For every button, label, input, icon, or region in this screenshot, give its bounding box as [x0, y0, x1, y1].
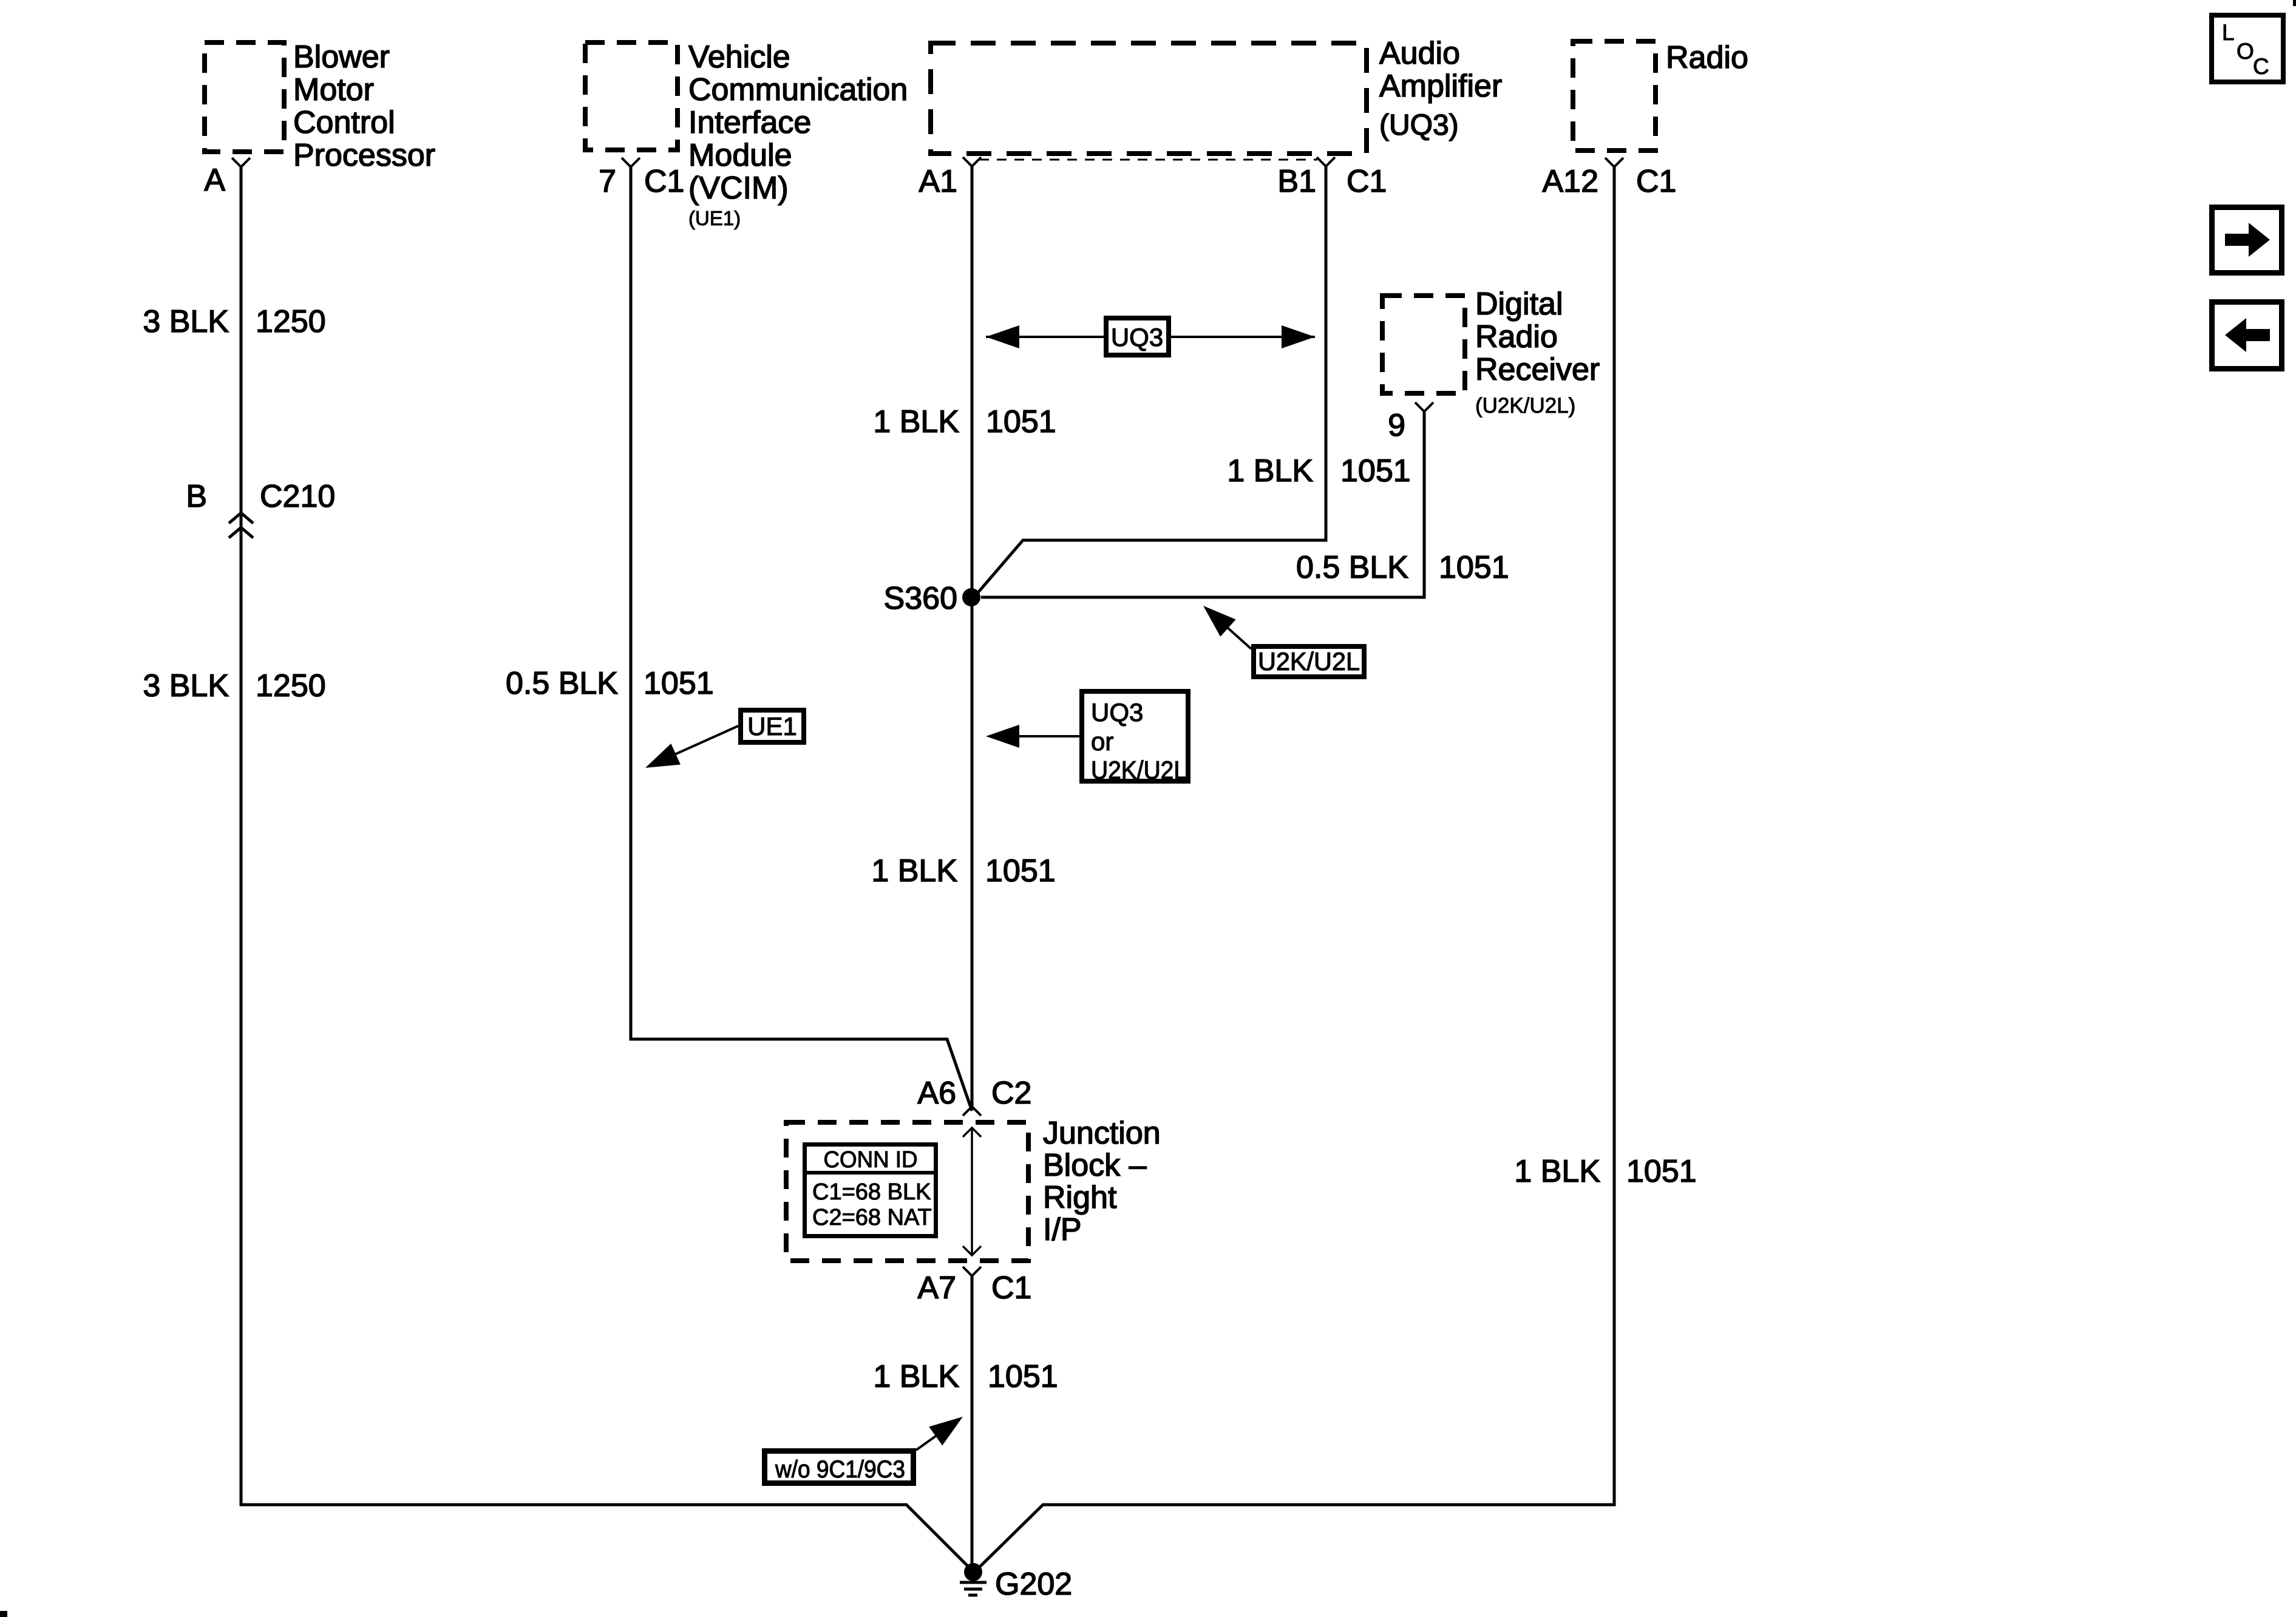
LOC page icon [2212, 15, 2283, 82]
w/o 9C1/9C3 callout arrow line [916, 1423, 954, 1450]
svg-text:Right: Right [1043, 1180, 1117, 1215]
svg-text:1051: 1051 [988, 1359, 1058, 1394]
svg-text:1051: 1051 [1626, 1154, 1697, 1189]
svg-text:Audio: Audio [1379, 36, 1460, 71]
svg-text:1 BLK: 1 BLK [1514, 1154, 1600, 1189]
wire label 1 BLK 1051 A1 lower [871, 853, 1055, 889]
svg-text:A6: A6 [917, 1076, 956, 1111]
wire label 1 BLK 1051 radio [1514, 1154, 1696, 1189]
UQ3 or U2K/U2L label box [1082, 691, 1188, 784]
wire label 1 BLK 1051 B1 [1227, 453, 1410, 489]
wire DRR pin9 to S360 [981, 412, 1424, 597]
svg-text:I/P: I/P [1043, 1212, 1082, 1247]
svg-text:UQ3: UQ3 [1111, 323, 1163, 351]
connector A7 junction [963, 1267, 981, 1276]
connector A1 amplifier [963, 157, 981, 166]
junction block internal double arrow [963, 1128, 981, 1255]
wire label 1 BLK 1051 A7 [873, 1359, 1058, 1394]
svg-text:9: 9 [1388, 408, 1405, 443]
svg-text:Receiver: Receiver [1475, 352, 1600, 387]
VCIM label [688, 39, 908, 229]
UQ3 double arrow right head [1282, 325, 1315, 348]
wire blower A to ground [241, 167, 974, 1572]
svg-text:Module: Module [688, 138, 792, 173]
svg-text:Interface: Interface [688, 105, 811, 140]
svg-text:C210: C210 [260, 479, 335, 514]
svg-text:1 BLK: 1 BLK [873, 404, 959, 439]
svg-text:Block –: Block – [1043, 1148, 1147, 1183]
svg-text:UQ3: UQ3 [1091, 698, 1143, 727]
svg-text:1051: 1051 [644, 666, 714, 701]
svg-text:1 BLK: 1 BLK [871, 853, 957, 889]
connector A blower [232, 158, 250, 167]
svg-text:(VCIM): (VCIM) [688, 171, 789, 206]
U2K/U2L arrow head [1195, 597, 1235, 637]
svg-text:O: O [2237, 39, 2254, 64]
svg-text:Digital: Digital [1475, 286, 1563, 322]
wire junction A7 to ground [971, 1276, 974, 1572]
connector 9 DRR [1415, 402, 1433, 412]
svg-text:Processor: Processor [293, 138, 435, 173]
svg-text:(U2K/U2L): (U2K/U2L) [1475, 394, 1575, 418]
inline connector C210 [229, 513, 253, 538]
ground dot G202 [964, 1563, 982, 1581]
blower motor control processor label [293, 39, 435, 173]
svg-text:C1: C1 [1347, 164, 1387, 199]
svg-text:(UE1): (UE1) [688, 207, 741, 229]
ground symbol G202 [960, 1582, 987, 1595]
thin option dashed line under audio amplifier [979, 159, 1317, 161]
svg-text:C1: C1 [991, 1270, 1031, 1306]
junction block label [1043, 1116, 1161, 1247]
S360 splice dot [962, 588, 980, 606]
svg-text:U2K/U2L: U2K/U2L [1258, 647, 1360, 676]
audio amplifier label [1379, 36, 1502, 141]
svg-text:1051: 1051 [1340, 453, 1411, 489]
svg-text:G202: G202 [995, 1567, 1072, 1602]
svg-text:UE1: UE1 [747, 712, 797, 741]
svg-text:Vehicle: Vehicle [688, 39, 790, 75]
w/o 9C1/9C3 arrow head [929, 1408, 970, 1446]
svg-text:0.5 BLK: 0.5 BLK [1296, 550, 1408, 585]
svg-text:C2: C2 [991, 1076, 1031, 1111]
svg-text:0.5 BLK: 0.5 BLK [506, 666, 618, 701]
wire label 3 BLK 1250 upper [143, 304, 325, 339]
svg-text:B1: B1 [1277, 164, 1316, 199]
UQ3 span double arrow line [986, 336, 1315, 338]
page corner mark bottom left [0, 1611, 7, 1617]
svg-text:Control: Control [293, 105, 395, 140]
svg-text:Radio: Radio [1475, 319, 1558, 354]
svg-text:C2=68 NAT: C2=68 NAT [812, 1205, 932, 1230]
svg-text:C1=68 BLK: C1=68 BLK [812, 1179, 931, 1205]
wire label 1 BLK 1051 A1 upper [873, 404, 1056, 439]
junction block right I/P box [786, 1122, 1028, 1261]
svg-text:7: 7 [599, 164, 616, 199]
svg-text:A: A [204, 163, 225, 198]
svg-text:A1: A1 [919, 164, 957, 199]
svg-text:A7: A7 [917, 1270, 956, 1306]
wire amplifier A1 to junction A6 [971, 166, 974, 1107]
radio box [1573, 41, 1656, 151]
connector A6 junction [963, 1107, 981, 1116]
audio amplifier box [931, 43, 1367, 154]
connector A12 radio [1605, 158, 1623, 167]
svg-text:Radio: Radio [1666, 40, 1748, 75]
w/o 9C1/9C3 label box [765, 1451, 914, 1483]
UE1 callout arrow line [654, 726, 738, 764]
svg-text:CONN ID: CONN ID [824, 1147, 918, 1173]
svg-text:S360: S360 [884, 581, 957, 616]
svg-text:(UQ3): (UQ3) [1379, 109, 1459, 141]
blower motor control processor box [205, 42, 284, 152]
wire label 3 BLK 1250 lower [143, 668, 325, 703]
UQ3 double arrow left head [986, 325, 1019, 348]
VCIM module box [585, 42, 678, 150]
wire amplifier B1 to S360 [975, 166, 1326, 596]
svg-text:C1: C1 [1636, 164, 1676, 199]
wire VCIM pin7 to junction A6 [631, 167, 972, 1111]
UE1 arrow head [640, 744, 681, 778]
digital radio receiver label [1475, 286, 1600, 418]
UQ3 or U2K/U2L arrow head [986, 725, 1019, 748]
wire radio A12 to ground [976, 167, 1614, 1571]
svg-text:1 BLK: 1 BLK [1227, 453, 1313, 489]
svg-text:Motor: Motor [293, 72, 374, 107]
svg-text:3 BLK: 3 BLK [143, 304, 229, 339]
UE1 label box [741, 710, 804, 742]
UQ3 label box [1106, 318, 1169, 355]
svg-text:L: L [2222, 20, 2235, 45]
wire label 0.5 BLK 1051 pin9 [1296, 550, 1509, 585]
svg-text:C1: C1 [644, 164, 684, 199]
page corner mark top right [2293, 0, 2296, 6]
svg-text:Amplifier: Amplifier [1379, 69, 1502, 104]
svg-text:Junction: Junction [1043, 1116, 1161, 1151]
U2K/U2L callout arrow line [1211, 612, 1251, 649]
svg-text:1250: 1250 [256, 668, 326, 703]
svg-text:A12: A12 [1542, 164, 1598, 199]
connector B1 amplifier [1317, 157, 1335, 166]
right arrow nav box [2212, 208, 2282, 273]
svg-text:Communication: Communication [688, 72, 908, 107]
connector 7 VCIM [622, 158, 640, 167]
left arrow nav box [2212, 302, 2282, 369]
svg-text:1051: 1051 [985, 853, 1056, 889]
svg-text:U2K/U2L: U2K/U2L [1091, 756, 1187, 784]
svg-text:1250: 1250 [256, 304, 326, 339]
svg-text:1051: 1051 [1439, 550, 1509, 585]
wire label 0.5 BLK 1051 VCIM [506, 666, 714, 701]
svg-text:w/o 9C1/9C3: w/o 9C1/9C3 [775, 1456, 905, 1483]
svg-text:3 BLK: 3 BLK [143, 668, 229, 703]
UQ3 or U2K/U2L callout arrow line [996, 735, 1079, 737]
svg-text:B: B [186, 479, 207, 514]
svg-text:1 BLK: 1 BLK [873, 1359, 959, 1394]
digital radio receiver box [1382, 296, 1465, 393]
svg-text:Blower: Blower [293, 39, 390, 75]
U2K/U2L label box [1254, 646, 1364, 677]
svg-text:1051: 1051 [986, 404, 1056, 439]
CONN ID table [805, 1145, 936, 1236]
svg-text:or: or [1091, 727, 1113, 756]
svg-text:C: C [2253, 54, 2269, 79]
